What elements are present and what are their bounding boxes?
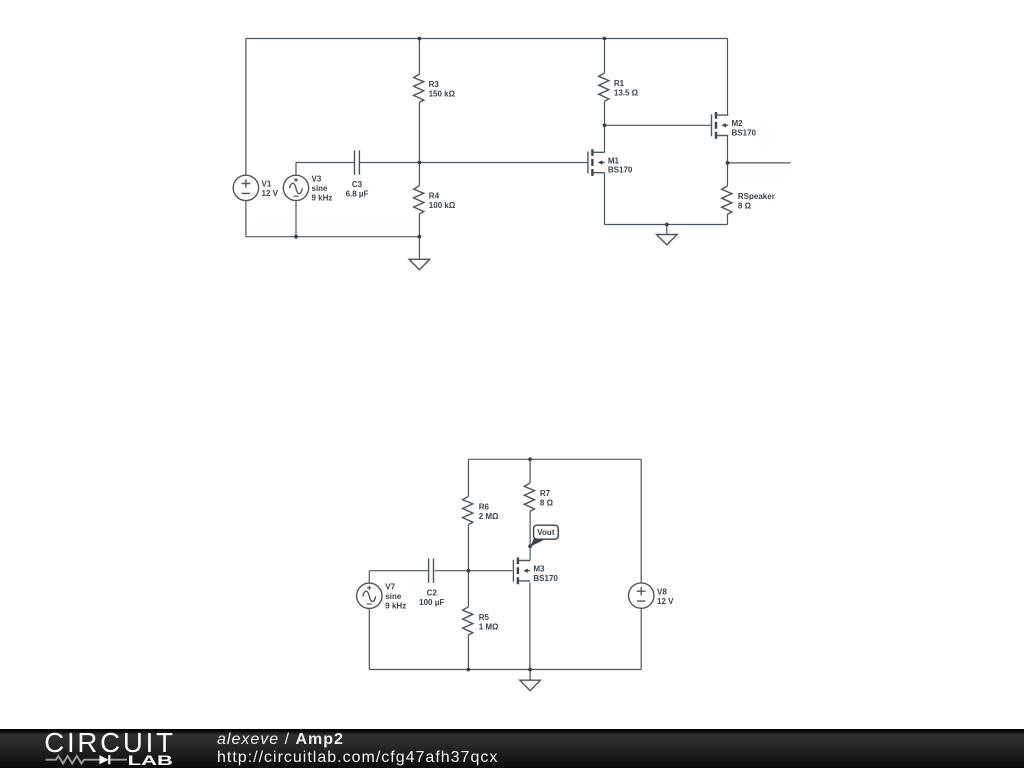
svg-text:2 MΩ: 2 MΩ — [479, 512, 499, 521]
svg-text:6.8 µF: 6.8 µF — [346, 190, 369, 199]
svg-text:V8: V8 — [657, 587, 667, 596]
svg-text:sine: sine — [385, 592, 402, 601]
svg-text:V7: V7 — [385, 583, 395, 592]
svg-text:R3: R3 — [429, 80, 440, 89]
svg-text:R7: R7 — [540, 489, 551, 498]
svg-text:100 µF: 100 µF — [419, 598, 444, 607]
svg-text:8 Ω: 8 Ω — [738, 202, 752, 211]
svg-text:12 V: 12 V — [262, 189, 279, 198]
svg-text:150 kΩ: 150 kΩ — [429, 90, 456, 99]
svg-text:12 V: 12 V — [657, 597, 674, 606]
svg-text:sine: sine — [312, 184, 329, 193]
svg-text:1 MΩ: 1 MΩ — [479, 622, 499, 631]
svg-text:BS170: BS170 — [608, 166, 633, 175]
svg-text:M3: M3 — [533, 565, 545, 574]
svg-text:BS170: BS170 — [533, 574, 558, 583]
svg-text:Vout: Vout — [537, 528, 555, 537]
svg-text:V1: V1 — [262, 180, 272, 189]
svg-text:R6: R6 — [479, 502, 490, 511]
svg-text:R4: R4 — [429, 192, 440, 201]
svg-text:RSpeaker: RSpeaker — [738, 192, 775, 201]
svg-text:M1: M1 — [608, 156, 620, 165]
svg-text:R5: R5 — [479, 613, 490, 622]
svg-text:C3: C3 — [352, 180, 363, 189]
svg-text:M2: M2 — [732, 119, 744, 128]
svg-text:V3: V3 — [312, 175, 322, 184]
svg-text:LAB: LAB — [128, 753, 173, 768]
svg-text:100 kΩ: 100 kΩ — [429, 201, 456, 210]
svg-text:9 kHz: 9 kHz — [385, 602, 406, 611]
svg-text:8 Ω: 8 Ω — [540, 499, 554, 508]
svg-text:BS170: BS170 — [732, 129, 757, 138]
svg-text:R1: R1 — [614, 79, 625, 88]
svg-text:9 kHz: 9 kHz — [312, 194, 333, 203]
svg-text:C2: C2 — [427, 588, 438, 597]
svg-text:13.5 Ω: 13.5 Ω — [614, 89, 639, 98]
